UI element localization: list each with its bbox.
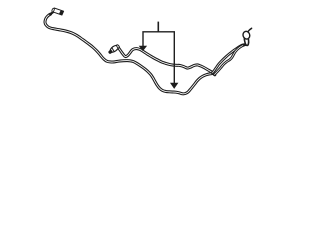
twisted hose pair strand A (upper strand of crossover eye) white core <box>213 45 245 73</box>
left fitting neck <box>50 12 53 14</box>
middle fitting collar <box>116 44 120 48</box>
left fitting dark opening <box>59 10 63 15</box>
arrow to upper hose <box>139 46 147 51</box>
arrow to lower hose <box>170 83 178 89</box>
middle hose-end fitting body <box>109 44 120 54</box>
callout bracket <box>143 32 174 83</box>
hose end stub joining hairpin <box>244 44 247 46</box>
callout label 1 (leader tick) <box>157 22 159 32</box>
hose tube 2 (from middle fitting to right) white core <box>119 48 215 74</box>
middle fitting band <box>112 48 115 52</box>
hose tube 1 (long hose from left fitting) white core <box>45 14 213 94</box>
hose tube 2 (from middle fitting to right) (outer dark stroke) <box>119 48 215 74</box>
twisted hose pair strand A (upper strand of crossover eye) (outer dark stroke) <box>213 45 245 73</box>
twisted hose pair strand B (lower strand of crossover eye) white core <box>215 45 245 75</box>
left fitting end curl <box>51 8 54 12</box>
hose tube 1 (long hose from left fitting) (outer dark stroke) <box>45 14 213 94</box>
hose end hairpin below eyelet <box>244 39 248 46</box>
twisted hose pair strand B (lower strand of crossover eye) (outer dark stroke) <box>215 45 245 75</box>
left quick-connect fitting body <box>53 8 64 15</box>
eyelet tab stub <box>248 28 252 31</box>
middle fitting dark tip <box>108 49 113 54</box>
eyelet ring fitting at right end <box>242 30 251 40</box>
